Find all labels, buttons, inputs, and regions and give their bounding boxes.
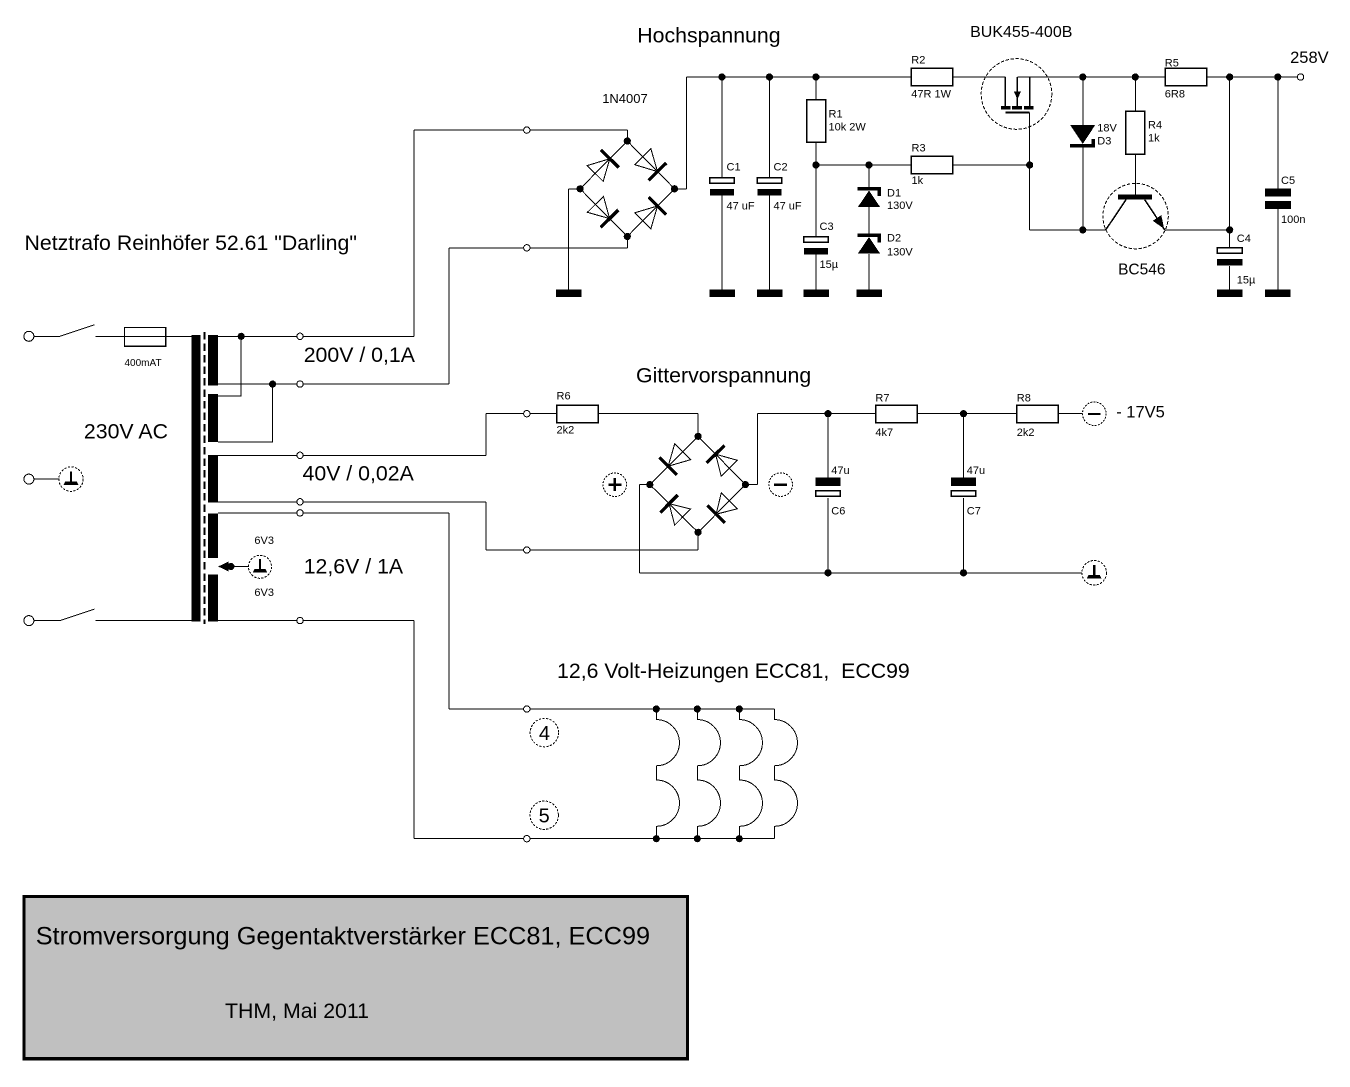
junction [960, 569, 967, 576]
junction heater bottom [694, 835, 701, 842]
svg-text:100n: 100n [1281, 214, 1305, 226]
junction B1 bottom (AC in) [624, 233, 631, 240]
junction [1079, 73, 1086, 80]
ground (C4) [1217, 290, 1243, 297]
terminal 40V a [297, 452, 303, 458]
wire [640, 484, 650, 486]
svg-text:Netztrafo Reinhöfer 52.61 "Dar: Netztrafo Reinhöfer 52.61 "Darling" [25, 231, 357, 255]
svg-text:D2: D2 [887, 232, 901, 244]
svg-text:47u: 47u [967, 465, 985, 477]
wire [414, 838, 523, 840]
wire [918, 413, 1017, 415]
ground (D2) [856, 290, 882, 297]
fuse F1 400mAT [125, 328, 166, 347]
svg-text:C6: C6 [831, 505, 845, 517]
transformer T1 secondary winding bar 1 [208, 335, 218, 386]
wire [530, 413, 556, 415]
junction B1 left (DC-) [577, 185, 584, 192]
wire [815, 77, 817, 100]
svg-text:10k 2W: 10k 2W [829, 122, 867, 134]
wire [697, 414, 699, 437]
wire [769, 195, 771, 289]
wire 200V winding bottom [218, 383, 449, 385]
junction [812, 73, 819, 80]
ground (C2) [757, 290, 783, 297]
zener diode D1 130V [857, 187, 881, 207]
terminal heater top [524, 706, 530, 712]
terminal (40V to R6) [524, 411, 530, 417]
wire [721, 77, 723, 178]
svg-text:1k: 1k [1148, 133, 1160, 145]
svg-text:C4: C4 [1237, 233, 1251, 245]
junction center tap [227, 563, 234, 570]
svg-text:1N4007: 1N4007 [602, 91, 648, 106]
MOSFET Q1 BUK455-400B body circle [981, 59, 1052, 130]
wire 40V winding bottom [218, 501, 486, 503]
resistor R8 [1017, 405, 1059, 423]
svg-text:2k2: 2k2 [1017, 427, 1035, 439]
svg-text:C1: C1 [727, 162, 741, 174]
resistor R2 [911, 68, 953, 86]
junction B1 right (DC+) [671, 185, 678, 192]
earth symbol (mains PE) [59, 467, 83, 491]
capacitor C6 [816, 478, 841, 497]
svg-text:4: 4 [539, 723, 550, 745]
terminal 12,6V a [297, 510, 303, 516]
switch S1 (mains, upper) [34, 325, 95, 337]
MOSFET Q1 internals [1001, 77, 1034, 112]
zener diode D3 18V [1070, 125, 1095, 148]
wire parallel winding link upper [218, 336, 241, 396]
junction [1132, 73, 1139, 80]
svg-text:R2: R2 [911, 55, 925, 67]
title box [24, 897, 688, 1059]
earth symbol (bias ground) [1082, 561, 1107, 586]
wire [827, 498, 829, 573]
wire bias ground rail [640, 572, 1082, 574]
svg-text:6R8: 6R8 [1165, 89, 1185, 101]
wire [414, 129, 627, 131]
diode D-BR of B2 [707, 493, 737, 523]
wire [626, 130, 628, 141]
wire [485, 502, 487, 550]
svg-text:C2: C2 [774, 162, 788, 174]
svg-text:258V: 258V [1290, 49, 1329, 67]
svg-text:200V / 0,1A: 200V / 0,1A [304, 343, 416, 367]
junction B2 top [695, 433, 702, 440]
wire [96, 335, 192, 337]
capacitor C2 [757, 178, 781, 196]
wire [815, 142, 817, 237]
transformer T1 secondary winding bar 4 [208, 514, 218, 559]
wire [486, 549, 698, 551]
svg-text:R4: R4 [1148, 119, 1162, 131]
svg-text:THM, Mai 2011: THM, Mai 2011 [225, 999, 369, 1023]
output terminal -17V5 [1083, 402, 1107, 426]
svg-text:2k2: 2k2 [557, 425, 575, 437]
wire [953, 164, 1030, 166]
junction heater top [736, 705, 743, 712]
wire [815, 254, 817, 289]
wire [448, 248, 450, 384]
wire [868, 165, 870, 187]
wire [96, 620, 192, 622]
transistor Q2 BC546 internals [1106, 195, 1165, 230]
svg-text:230V AC: 230V AC [84, 420, 168, 444]
wire [827, 414, 829, 478]
terminal 40V b [297, 499, 303, 505]
wire [1030, 229, 1106, 231]
terminal (200V upper) [524, 127, 530, 133]
junction heater top [694, 705, 701, 712]
terminal heater bottom [524, 836, 530, 842]
wire 12,6V winding top [218, 512, 449, 514]
diode D-TL (1N4007) of B1 [587, 150, 619, 181]
capacitor C3 [804, 237, 828, 255]
transformer T1 secondary winding bar 3 [208, 455, 218, 503]
wire [1229, 266, 1231, 290]
diode D-BL (1N4007) of B1 [587, 196, 618, 227]
heater winding 4 (ECC99) [774, 709, 797, 839]
wire [697, 532, 699, 550]
wire [1229, 77, 1231, 248]
wire [569, 188, 581, 190]
wire [769, 77, 771, 178]
svg-text:47R 1W: 47R 1W [911, 89, 951, 101]
svg-text:Stromversorgung Gegentaktverst: Stromversorgung Gegentaktverstärker ECC8… [36, 923, 650, 951]
svg-text:Gittervorspannung: Gittervorspannung [636, 364, 811, 388]
wire [485, 414, 487, 456]
wire [449, 708, 523, 710]
junction heater top [653, 705, 660, 712]
junction [238, 333, 245, 340]
wire [448, 513, 450, 709]
input terminal PE (earth) [24, 474, 34, 484]
junction [824, 569, 831, 576]
svg-text:C3: C3 [820, 221, 834, 233]
wire 40V winding top [218, 454, 486, 456]
svg-text:6V3: 6V3 [254, 535, 274, 547]
input terminal L (230V) [24, 331, 34, 341]
wire [639, 485, 641, 573]
wire [868, 254, 870, 290]
wire [757, 414, 759, 485]
diode D-TL of B2 [659, 444, 690, 475]
svg-text:Hochspannung: Hochspannung [637, 24, 780, 48]
svg-text:40V / 0,02A: 40V / 0,02A [303, 462, 415, 486]
input terminal N (230V) [24, 616, 34, 626]
junction B2 right (DC-) [742, 481, 749, 488]
wire [1134, 154, 1136, 195]
wire [685, 77, 687, 189]
transformer T1 secondary winding bar 2 [208, 394, 218, 442]
junction B2 bottom [695, 529, 702, 536]
svg-text:BUK455-400B: BUK455-400B [970, 24, 1072, 41]
wire [758, 413, 876, 415]
junction [766, 73, 773, 80]
pin number 5 [530, 801, 558, 829]
wire [1082, 148, 1084, 230]
wire [1082, 77, 1084, 125]
svg-text:47u: 47u [831, 465, 849, 477]
wire [568, 189, 570, 290]
wire [228, 566, 249, 568]
capacitor C7 [951, 478, 976, 497]
terminal 258V output [1297, 74, 1303, 80]
wire [598, 413, 698, 415]
junction [1274, 73, 1281, 80]
svg-text:R5: R5 [1165, 58, 1179, 70]
wire [868, 207, 870, 233]
wire heater top rail [530, 708, 774, 710]
resistor R7 [876, 405, 918, 423]
wire [449, 247, 627, 249]
svg-text:12,6V / 1A: 12,6V / 1A [304, 555, 404, 579]
terminal 200V a [297, 333, 303, 339]
terminal 200V b [297, 381, 303, 387]
wire [963, 414, 965, 478]
junction [824, 410, 831, 417]
wire [1134, 77, 1136, 111]
junction [865, 161, 872, 168]
wire [626, 237, 628, 248]
polarity mark plus [603, 473, 627, 497]
resistor R6 [557, 405, 599, 423]
transformer T1 primary winding bar [191, 335, 200, 622]
pin number 4 [530, 718, 558, 746]
svg-text:130V: 130V [887, 246, 913, 258]
svg-text:BC546: BC546 [1118, 261, 1165, 278]
svg-text:R3: R3 [912, 143, 926, 155]
diode D-TR of B2 [707, 446, 738, 477]
wire [953, 76, 1005, 78]
svg-text:130V: 130V [887, 200, 913, 212]
junction B2 left (DC+) [646, 481, 653, 488]
ground (C3) [803, 290, 829, 297]
junction [718, 73, 725, 80]
wire [1165, 229, 1230, 231]
resistor R1 [807, 100, 826, 143]
junction [1079, 226, 1086, 233]
ground (C1) [709, 290, 735, 297]
wire [486, 413, 523, 415]
wire [1207, 76, 1297, 78]
transformer T1 core [203, 332, 205, 624]
junction B1 top (AC in) [624, 137, 631, 144]
transformer T1 secondary winding bar 5 [208, 574, 218, 621]
junction heater bottom [736, 835, 743, 842]
wire [745, 484, 757, 486]
wire HV rail [686, 76, 911, 78]
heater winding 3 (ECC99) [739, 709, 762, 839]
svg-text:R6: R6 [557, 391, 571, 403]
ground (bridge B1) [556, 290, 582, 297]
svg-text:1k: 1k [912, 175, 924, 187]
ground (C5) [1265, 290, 1291, 297]
junction [812, 161, 819, 168]
svg-text:12,6 Volt-Heizungen ECC81, EC: 12,6 Volt-Heizungen ECC81, ECC99 [557, 659, 910, 683]
capacitor C4 [1217, 248, 1242, 266]
resistor R3 [911, 156, 953, 174]
svg-text:4k7: 4k7 [875, 427, 893, 439]
svg-text:R7: R7 [875, 393, 889, 405]
junction [269, 381, 276, 388]
wire gate lead [1029, 112, 1031, 229]
wire 12,6V winding bottom [218, 620, 414, 622]
center tap arrow [218, 562, 228, 572]
svg-text:5: 5 [539, 805, 550, 827]
junction gate node [1026, 161, 1033, 168]
svg-text:- 17V5: - 17V5 [1116, 404, 1165, 422]
bridge rectifier B1 outline [580, 141, 674, 237]
zener diode D2 130V [857, 234, 881, 254]
terminal (40V to bridge B2) [524, 547, 530, 553]
junction [1226, 226, 1233, 233]
junction [960, 410, 967, 417]
wire [721, 195, 723, 289]
transistor Q2 BC546 body circle [1103, 183, 1168, 248]
svg-text:D1: D1 [887, 188, 901, 200]
capacitor C5 [1265, 188, 1291, 209]
svg-text:R1: R1 [829, 109, 843, 121]
svg-text:400mAT: 400mAT [125, 358, 162, 369]
wire [1277, 77, 1279, 188]
wire [816, 164, 912, 166]
wire [413, 130, 415, 336]
svg-text:C5: C5 [1281, 175, 1295, 187]
wire [1277, 209, 1279, 290]
wire heater bottom rail [530, 838, 774, 840]
wire parallel winding link lower [218, 384, 272, 442]
svg-text:R8: R8 [1017, 393, 1031, 405]
diode D-BL of B2 [660, 495, 690, 525]
svg-text:47 uF: 47 uF [727, 201, 755, 213]
wire [34, 478, 60, 480]
diode D-BR (1N4007) of B1 [635, 197, 667, 228]
resistor R5 [1165, 68, 1207, 86]
diode D-TR (1N4007) of B1 [635, 149, 667, 181]
terminal 12,6V b [297, 617, 303, 623]
heater winding 2 (ECC81) [697, 709, 720, 839]
junction [1226, 73, 1233, 80]
wire [1058, 413, 1082, 415]
svg-text:6V3: 6V3 [254, 587, 274, 599]
svg-text:47 uF: 47 uF [774, 201, 802, 213]
svg-text:15µ: 15µ [1237, 274, 1256, 286]
wire HV rail (source side) [1017, 76, 1164, 78]
polarity mark minus [769, 473, 793, 497]
junction heater bottom [653, 835, 660, 842]
resistor R4 [1126, 111, 1145, 154]
wire [413, 621, 415, 839]
svg-text:C7: C7 [967, 505, 981, 517]
wire 200V winding top [218, 335, 414, 337]
earth symbol (heater center tap) [249, 555, 272, 578]
svg-text:D3: D3 [1097, 136, 1111, 148]
wire [675, 188, 687, 190]
heater winding 1 (ECC81) [656, 709, 679, 839]
svg-text:18V: 18V [1097, 122, 1117, 134]
capacitor C1 [710, 178, 734, 196]
wire [963, 498, 965, 573]
bridge rectifier B2 outline [650, 436, 746, 532]
terminal (200V lower) [524, 245, 530, 251]
svg-text:15µ: 15µ [820, 259, 839, 271]
switch S1 (mains, lower) [34, 609, 95, 621]
